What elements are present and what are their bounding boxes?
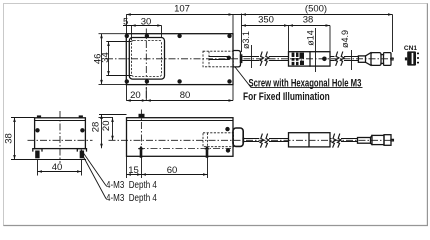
body screw head dots bottom row [125, 79, 129, 83]
side view hole centerline [138, 148, 231, 150]
front view inner top line [35, 120, 86, 122]
dimension 60 [203, 173, 208, 176]
cable row2 to ferrite [269, 139, 289, 142]
dimension 107 [126, 14, 392, 16]
plug pin row2 [391, 139, 393, 141]
dimension 20 (bottom of top view) [127, 85, 234, 101]
cable row2 from boss [243, 139, 259, 142]
side view dashed divider [207, 133, 209, 147]
svg-text:40: 40 [52, 162, 63, 173]
ferrite screw dot [322, 57, 327, 62]
leader 4-M3 a [81, 150, 106, 186]
svg-text:30: 30 [141, 17, 152, 28]
CN1 connector icon [407, 51, 416, 65]
cable row1 after ferrite [330, 57, 335, 61]
svg-text:5: 5 [123, 17, 128, 28]
side view stud right [205, 146, 210, 150]
plug sleeve row2 [358, 138, 371, 144]
lens frame rounded square [129, 38, 164, 80]
note text line2 [243, 91, 330, 103]
dimension 80 [229, 99, 234, 102]
svg-text:ø4.9: ø4.9 [340, 30, 350, 48]
cable break row2 b [332, 134, 336, 148]
dimension 38 (cable part) [289, 26, 331, 52]
front view body [35, 118, 86, 149]
svg-text:15: 15 [128, 165, 139, 176]
cable row1 to ferrite [269, 57, 289, 61]
svg-text:20: 20 [130, 90, 141, 101]
cable row1 to plug [344, 57, 358, 61]
top view body outline [126, 34, 233, 85]
horizontal centerline row1 axis [106, 58, 394, 60]
note 4-M3 line2 [106, 192, 157, 203]
front view centerlines [59, 111, 61, 163]
svg-text:107: 107 [174, 4, 190, 15]
svg-text:80: 80 [180, 90, 191, 101]
dimension 28 [99, 114, 127, 116]
svg-text:CN1: CN1 [404, 45, 418, 52]
svg-text:ø14: ø14 [306, 30, 316, 46]
plug taper row1 [366, 53, 372, 66]
note 4-M3 line1 [106, 179, 157, 190]
ferrite clamp marks [292, 53, 295, 66]
svg-text:38: 38 [303, 15, 314, 26]
ferrite box row1 [289, 52, 331, 66]
svg-text:38: 38 [3, 133, 14, 144]
dimension (500) [242, 14, 393, 53]
dimension 34 [108, 42, 110, 76]
front view screw dots [35, 128, 39, 132]
screw hole dashed rect right [203, 51, 233, 67]
side view tab centerline [140, 110, 142, 153]
dimension 20 [99, 117, 114, 119]
dashed divider in screw hole [208, 51, 210, 67]
svg-text:4-M3 Depth 4: 4-M3 Depth 4 [106, 179, 157, 190]
cable boss protrusion [233, 51, 240, 67]
dimension 38 [11, 118, 86, 160]
ferrite box row2 [289, 133, 331, 147]
dimension 15 [127, 156, 208, 178]
vertical centerline of lens [145, 29, 147, 101]
side view boss protrusion [233, 128, 243, 146]
svg-text:350: 350 [258, 15, 274, 26]
plug pin row1 [391, 58, 393, 60]
plug body row2 [372, 135, 384, 144]
ferrite divider row2 [308, 133, 310, 147]
screw shaft end dot [227, 56, 231, 60]
dimension 40 [38, 160, 82, 176]
side view axis [109, 139, 395, 141]
hex socket screw tip [240, 54, 243, 63]
cable row2 after break [330, 139, 332, 142]
svg-text:28: 28 [90, 122, 101, 133]
front view stud right [77, 149, 86, 151]
svg-text:60: 60 [167, 165, 178, 176]
front view stud left [33, 149, 42, 151]
lens aperture dashed square [132, 40, 162, 76]
plug taper row2 [371, 135, 373, 144]
svg-text:20: 20 [101, 121, 112, 132]
leader 4-M3 b [83, 157, 106, 199]
plug sleeve row1 [358, 56, 365, 62]
plug body row1 [371, 53, 381, 66]
svg-text:Screw with Hexagonal Hole M3: Screw with Hexagonal Hole M3 [249, 77, 362, 90]
svg-text:34: 34 [100, 52, 111, 63]
dimension 30 [123, 25, 162, 27]
side view stud left [139, 146, 144, 150]
plug cap row1 [384, 53, 392, 66]
cable break row1 b [335, 52, 339, 66]
plug neck row1 [381, 55, 384, 64]
side view dashed hole rect [203, 133, 234, 147]
cable break row2 a [260, 134, 264, 148]
dimension 350 [242, 25, 331, 27]
plug cap row2 [384, 135, 391, 146]
screw shaft lines [209, 57, 229, 60]
dimension 46 [101, 34, 103, 85]
ferrite divider [309, 52, 311, 66]
front view top tabs [37, 115, 41, 118]
svg-text:ø3.1: ø3.1 [241, 31, 251, 49]
cable row1 from boss [242, 57, 259, 61]
leader screw note [235, 67, 363, 87]
side view screw tip [242, 138, 244, 143]
side view top tab [139, 114, 145, 118]
side view screw dots [225, 127, 229, 131]
svg-text:4-M3 Depth 4: 4-M3 Depth 4 [106, 192, 157, 203]
side view inner top line [127, 120, 234, 122]
side view body [127, 118, 234, 157]
cable break row1 a [260, 52, 264, 66]
svg-text:(500): (500) [305, 4, 327, 15]
body screw head dots top row [125, 34, 129, 38]
note text line1 [249, 77, 362, 90]
svg-text:For Fixed Illumination: For Fixed Illumination [243, 91, 330, 103]
